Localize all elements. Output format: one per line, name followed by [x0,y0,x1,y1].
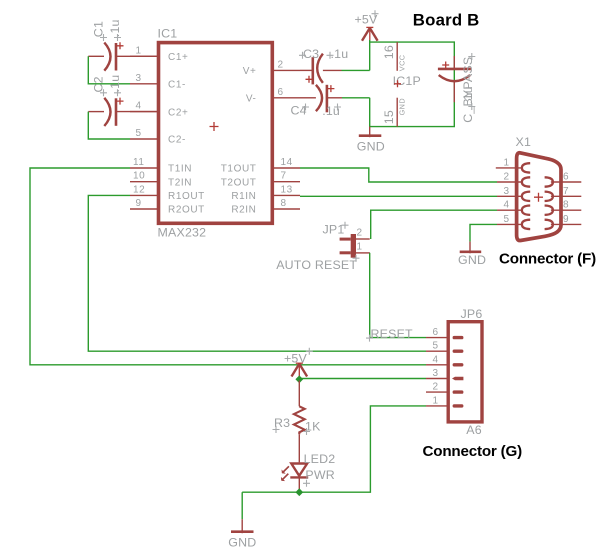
capacitor C2 [88,98,158,126]
origin cross JP1 [342,222,349,229]
origin cross C_BYPASS [468,53,475,110]
svg-text:1: 1 [504,157,510,168]
pin 14 T1OUT stub [221,157,300,175]
pin 13 R1IN stub [231,184,300,202]
svg-text:5: 5 [433,341,439,352]
svg-text:PWR: PWR [305,468,335,482]
svg-text:Board B: Board B [413,11,480,30]
JP6 pin 3 [426,368,463,380]
svg-text:8: 8 [281,198,287,209]
svg-text:R2IN: R2IN [231,205,256,216]
svg-text:7: 7 [281,171,287,182]
svg-text:3: 3 [433,368,439,379]
jumper JP1 [340,234,370,258]
wire LED node to JP6 pin1 [299,406,426,492]
svg-text:14: 14 [281,157,293,168]
pin 3 C1- stub [130,73,186,91]
svg-text:T2IN: T2IN [168,177,192,188]
ground GND under X1 pin5 [458,242,486,268]
wire C2 loop to pin 5 [88,112,130,139]
svg-text:C1+: C1+ [168,52,188,63]
svg-text:1: 1 [357,241,363,252]
capacitor C4 [300,85,342,113]
wire IC pin14 to X1 pin2 [300,168,497,182]
svg-text:T2OUT: T2OUT [221,177,257,188]
svg-text:11: 11 [133,157,145,168]
power block IC1P pin 16 VCC [382,42,406,71]
svg-text:A6: A6 [466,423,482,437]
X1 pin 3 [497,186,530,201]
svg-text:AUTO RESET: AUTO RESET [276,258,357,272]
wire JP1 pin1 down to RESET row [370,253,426,338]
connector X1 shell [517,153,561,241]
svg-text:4: 4 [433,354,439,365]
wire X1 pin5 to GND [470,224,497,241]
svg-text:Connector (F): Connector (F) [499,251,596,268]
pin 7 T2OUT stub [221,171,300,189]
pin 4 C2+ stub [130,101,188,119]
svg-text:R2OUT: R2OUT [168,205,205,216]
supply +5V symbol (top) [362,27,378,40]
svg-text:R1OUT: R1OUT [168,191,205,202]
origin cross R3 [273,426,280,433]
svg-text:+5V: +5V [284,351,308,365]
pin 9 R2OUT stub [130,198,205,216]
capacitor C3 [300,54,342,85]
X1 pin 5 [497,214,530,229]
JP6 pin 5 [426,341,463,353]
wire LED node left to GND and right [242,491,299,493]
wire IC pin12 to JP6 pin5 [88,195,426,351]
pin 11 T1IN stub [130,157,192,175]
power block IC1P pin 15 GND [382,98,406,127]
X1 pin 2 [497,172,530,187]
JP6 pin 4 [426,354,463,366]
resistor R3 [294,381,305,463]
origin cross 1K [303,428,310,435]
svg-text:6: 6 [433,327,439,338]
wire IC pin13 to X1 pin3 [300,195,497,197]
svg-text:1: 1 [136,45,142,56]
pin 2 V+ stub [243,59,300,77]
svg-text:C1-: C1- [168,80,186,91]
wire C1 loop to pin 3 [88,56,130,84]
svg-text:RESET: RESET [371,327,414,341]
svg-text:15: 15 [382,110,396,124]
label IC1P [393,74,421,88]
svg-text:LED2: LED2 [304,452,336,466]
svg-text:.1u: .1u [108,19,122,37]
svg-text:3: 3 [504,186,510,197]
wire C4 to IC1P node [342,97,370,99]
origin cross RESET [366,335,373,342]
connector JP6 body [448,322,482,422]
svg-text:6: 6 [278,87,284,98]
capacitor C_BYPASS [438,56,471,102]
svg-text:12: 12 [133,184,145,195]
svg-text:2: 2 [278,59,284,70]
svg-text:C3: C3 [303,47,319,61]
op-amp IC1 body [159,43,273,224]
pin 10 T2IN stub [130,171,192,189]
pin 6 V- stub [246,87,300,105]
X1 pin 4 [497,200,530,215]
pin 12 R1OUT stub [130,184,205,202]
origin cross AUTO RESET [353,255,360,262]
svg-text:VCC: VCC [398,55,407,72]
X1 pin 6 [545,172,582,187]
ground GND under IC1P [357,127,385,154]
X1 pin 1 [496,157,530,172]
svg-text:4: 4 [504,200,510,211]
svg-text:GND: GND [398,98,407,115]
pin 5 C2- stub [130,128,186,146]
capacitor C1 [88,42,158,70]
origin crosses C4 [302,104,341,111]
svg-text:2: 2 [504,172,510,183]
svg-text:V-: V- [246,94,257,105]
svg-text:1: 1 [433,395,439,406]
X1 pin 7 [545,186,582,201]
svg-text:6: 6 [563,172,569,183]
X1 pin 8 [545,200,582,215]
origin crosses C1 [100,34,121,41]
wire +5V down to C3 row [369,40,371,70]
supply +5V symbol (bottom) [292,363,308,379]
JP6 pin 2 [426,382,463,394]
svg-text:16: 16 [382,45,396,59]
origin cross +5V bottom [306,348,313,355]
X1 pin 9 [545,214,582,229]
origin crosses C3 [299,52,334,59]
svg-text:Connector (G): Connector (G) [423,443,523,460]
svg-text:MAX232: MAX232 [158,226,207,240]
ground GND bottom [228,519,256,549]
svg-text:5: 5 [504,214,510,225]
svg-text:9: 9 [136,198,142,209]
svg-text:2: 2 [357,227,363,238]
origin cross PWR [303,480,310,487]
svg-text:T1OUT: T1OUT [221,164,257,175]
JP6 pin 1 [426,395,463,407]
svg-text:5: 5 [136,128,142,139]
svg-text:13: 13 [281,184,293,195]
svg-text:10: 10 [133,171,145,182]
pin 1 C1+ stub [130,45,188,63]
LED LED2 [281,464,308,490]
svg-text:4: 4 [136,101,142,112]
X1 center mark [534,193,543,202]
svg-text:9: 9 [563,214,569,225]
svg-text:.1u: .1u [108,75,122,93]
pin 8 R2IN stub [231,198,300,216]
wire IC pin11 to JP6 pin4 [30,168,426,365]
junction LED bottom node [295,488,303,496]
origin cross +5V top [372,10,379,17]
svg-text:R1IN: R1IN [231,191,256,202]
wire +5V node to JP6 pin3 [299,378,426,380]
svg-text:C4: C4 [291,104,307,118]
svg-text:.1u: .1u [461,86,475,104]
svg-text:GND: GND [228,536,256,550]
svg-text:JP1: JP1 [323,222,345,236]
wire C3 to IC1P node [342,69,370,71]
svg-text:JP6: JP6 [461,307,483,321]
svg-text:X1: X1 [516,135,532,149]
JP6 pin 6 [426,327,463,339]
svg-text:2: 2 [433,382,439,393]
svg-text:T1IN: T1IN [168,164,192,175]
svg-text:IC1: IC1 [158,26,178,40]
svg-text:V+: V+ [243,66,257,77]
wire down to bottom GND [241,492,243,519]
svg-text:8: 8 [563,200,569,211]
node IC1P supply loop (green box) [370,42,455,127]
wire JP1 pin2 up to X1 pin4 [371,210,497,239]
svg-text:C2+: C2+ [168,107,188,118]
svg-text:7: 7 [563,186,569,197]
svg-text:.1u: .1u [331,47,349,61]
junction +5V node [295,375,303,383]
svg-text:GND: GND [357,140,385,154]
svg-text:C2-: C2- [168,135,186,146]
svg-text:3: 3 [136,73,142,84]
origin crosses C2 [100,89,121,96]
svg-text:GND: GND [458,253,486,267]
